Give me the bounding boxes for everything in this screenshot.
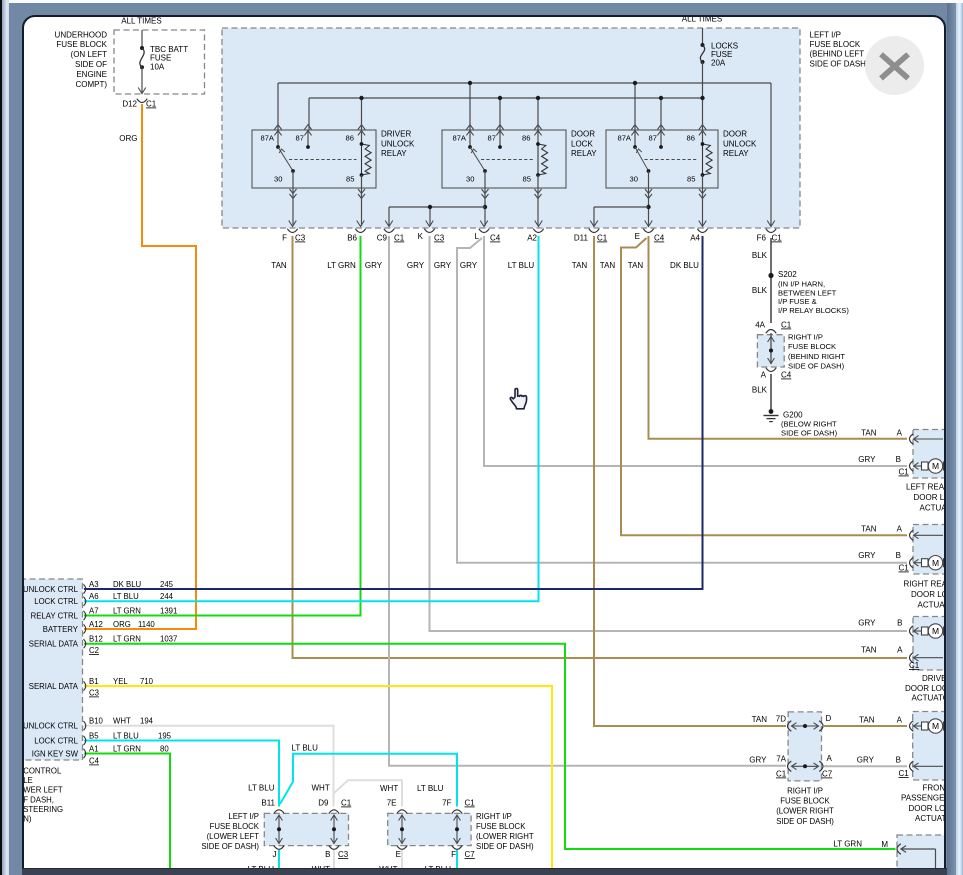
svg-text:85: 85 xyxy=(687,174,695,183)
svg-text:A: A xyxy=(896,715,902,724)
svg-text:F6: F6 xyxy=(756,233,766,242)
svg-text:GRY: GRY xyxy=(749,755,767,764)
svg-text:(IN I/P HARN,: (IN I/P HARN, xyxy=(778,279,825,288)
svg-text:GRY: GRY xyxy=(858,455,876,464)
svg-text:B1: B1 xyxy=(89,676,99,685)
svg-text:C1: C1 xyxy=(146,99,157,108)
svg-text:D12: D12 xyxy=(122,99,137,108)
svg-text:A: A xyxy=(897,645,903,654)
svg-text:RIGHT I/P: RIGHT I/P xyxy=(788,332,823,341)
svg-text:BLK: BLK xyxy=(751,286,767,295)
svg-text:30: 30 xyxy=(274,174,282,183)
svg-text:(LOWER RIGHT: (LOWER RIGHT xyxy=(776,806,834,815)
svg-text:TAN: TAN xyxy=(271,261,287,270)
svg-text:STEERING: STEERING xyxy=(24,804,63,813)
svg-text:GRY: GRY xyxy=(406,261,424,270)
svg-text:TAN: TAN xyxy=(861,428,877,437)
svg-text:M: M xyxy=(931,721,938,731)
svg-text:A4: A4 xyxy=(690,233,700,242)
svg-text:DOOR LOCK: DOOR LOCK xyxy=(908,804,944,813)
svg-text:A: A xyxy=(826,754,832,763)
svg-text:1140: 1140 xyxy=(138,619,155,628)
svg-text:RIGHT REAR: RIGHT REAR xyxy=(903,579,944,588)
svg-text:DRIVER: DRIVER xyxy=(922,674,944,683)
svg-text:30: 30 xyxy=(629,174,637,183)
svg-text:GRY: GRY xyxy=(433,261,451,270)
svg-text:LEFT REAR: LEFT REAR xyxy=(906,482,944,491)
svg-text:C9: C9 xyxy=(376,233,387,242)
svg-text:244: 244 xyxy=(160,592,174,601)
svg-text:7F: 7F xyxy=(442,798,451,807)
svg-text:D: D xyxy=(825,714,831,723)
svg-text:BLK: BLK xyxy=(751,251,767,260)
svg-text:LT BLU: LT BLU xyxy=(507,261,534,270)
svg-text:ORG: ORG xyxy=(113,619,131,628)
svg-text:SIDE OF DASH): SIDE OF DASH) xyxy=(788,361,845,370)
svg-text:(ON LEFT: (ON LEFT xyxy=(70,50,107,59)
svg-text:LT GRN: LT GRN xyxy=(113,744,141,753)
svg-text:SIDE OF DASH): SIDE OF DASH) xyxy=(776,816,834,825)
svg-text:86: 86 xyxy=(522,133,530,142)
svg-text:UNLOCK CTRL: UNLOCK CTRL xyxy=(24,721,79,730)
svg-text:C4: C4 xyxy=(490,233,501,242)
svg-text:1037: 1037 xyxy=(160,634,177,643)
svg-text:UNLOCK: UNLOCK xyxy=(723,139,757,148)
svg-text:DOOR LOCK: DOOR LOCK xyxy=(905,684,944,693)
svg-text:A: A xyxy=(760,370,766,379)
svg-text:C2: C2 xyxy=(89,646,99,655)
svg-text:ORG: ORG xyxy=(119,134,137,143)
svg-text:86: 86 xyxy=(686,133,694,142)
svg-text:FUSE BLOCK: FUSE BLOCK xyxy=(209,821,259,830)
svg-text:UNDERHOOD: UNDERHOOD xyxy=(54,30,107,39)
svg-text:ACTUATOR: ACTUATOR xyxy=(917,600,944,609)
svg-text:LT GRN: LT GRN xyxy=(833,839,862,848)
svg-text:C1: C1 xyxy=(781,320,792,329)
svg-text:S202: S202 xyxy=(778,270,797,279)
svg-text:B: B xyxy=(895,551,900,560)
svg-text:RELAY CTRL: RELAY CTRL xyxy=(30,611,78,620)
svg-text:C1: C1 xyxy=(898,563,909,572)
svg-text:87A: 87A xyxy=(617,133,631,142)
svg-text:(BEHIND RIGHT: (BEHIND RIGHT xyxy=(788,351,845,360)
svg-text:K: K xyxy=(417,232,423,241)
svg-text:LT BLU: LT BLU xyxy=(113,731,139,740)
svg-text:A1: A1 xyxy=(89,744,99,753)
svg-text:F: F xyxy=(451,850,456,859)
svg-text:DOOR: DOOR xyxy=(571,129,595,138)
svg-text:LEFT I/P: LEFT I/P xyxy=(228,811,259,820)
svg-text:710: 710 xyxy=(140,676,154,685)
svg-text:BETWEEN LEFT: BETWEEN LEFT xyxy=(778,288,837,297)
svg-text:DOOR LOCK: DOOR LOCK xyxy=(913,493,944,502)
svg-text:87A: 87A xyxy=(260,133,274,142)
svg-text:RELAY: RELAY xyxy=(381,149,407,158)
svg-text:ACTUATOR: ACTUATOR xyxy=(919,503,944,512)
svg-text:A: A xyxy=(896,428,902,437)
svg-text:RELAY: RELAY xyxy=(723,149,749,158)
svg-text:RIGHT I/P: RIGHT I/P xyxy=(787,786,823,795)
svg-text:DRIVER: DRIVER xyxy=(381,129,411,138)
svg-text:FUSE BLOCK: FUSE BLOCK xyxy=(788,342,836,351)
svg-text:GRY: GRY xyxy=(856,755,874,764)
svg-text:LT GRN: LT GRN xyxy=(327,261,356,270)
svg-text:PASSENGER: PASSENGER xyxy=(901,793,944,802)
svg-text:87: 87 xyxy=(648,133,656,142)
svg-text:B: B xyxy=(895,455,900,464)
svg-text:ACTUATOR: ACTUATOR xyxy=(915,814,944,823)
svg-text:DK BLU: DK BLU xyxy=(113,579,142,588)
svg-text:30: 30 xyxy=(466,174,474,183)
svg-text:E: E xyxy=(634,232,639,241)
svg-text:LT BLU: LT BLU xyxy=(248,783,275,792)
svg-text:194: 194 xyxy=(140,716,154,725)
svg-text:TAN: TAN xyxy=(861,524,877,533)
svg-text:TAN: TAN xyxy=(599,261,615,270)
svg-text:ALL TIMES: ALL TIMES xyxy=(681,17,721,23)
svg-text:(BEHIND LEFT: (BEHIND LEFT xyxy=(809,49,864,58)
svg-text:UNLOCK: UNLOCK xyxy=(381,139,415,148)
svg-text:LT GRN: LT GRN xyxy=(113,634,141,643)
svg-text:10A: 10A xyxy=(150,62,165,71)
svg-text:LEFT I/P: LEFT I/P xyxy=(809,30,840,39)
svg-text:M: M xyxy=(931,626,938,636)
svg-text:C3: C3 xyxy=(295,233,306,242)
svg-text:4A: 4A xyxy=(755,320,765,329)
svg-text:SIDE OF: SIDE OF xyxy=(74,60,106,69)
svg-text:A12: A12 xyxy=(89,619,103,628)
svg-text:86: 86 xyxy=(345,133,353,142)
svg-text:C1: C1 xyxy=(341,798,352,807)
svg-text:TAN: TAN xyxy=(861,645,877,654)
svg-text:1391: 1391 xyxy=(160,606,177,615)
svg-text:LT GRN: LT GRN xyxy=(113,606,141,615)
svg-text:DOOR LOCK: DOOR LOCK xyxy=(911,590,944,599)
svg-text:LT BLU: LT BLU xyxy=(291,743,318,752)
svg-text:C1: C1 xyxy=(776,769,787,778)
svg-text:F: F xyxy=(282,233,287,242)
svg-text:WHT: WHT xyxy=(311,783,329,792)
svg-text:C3: C3 xyxy=(338,850,349,859)
svg-text:A6: A6 xyxy=(89,592,99,601)
svg-text:GRY: GRY xyxy=(459,261,477,270)
svg-text:87A: 87A xyxy=(452,133,466,142)
svg-text:C3: C3 xyxy=(434,233,445,242)
svg-text:I/P FUSE &: I/P FUSE & xyxy=(778,297,817,306)
svg-text:LE: LE xyxy=(24,776,33,785)
svg-text:D11: D11 xyxy=(573,233,588,242)
svg-text:FUSE BLOCK: FUSE BLOCK xyxy=(809,40,860,49)
svg-text:FUSE BLOCK: FUSE BLOCK xyxy=(780,796,830,805)
svg-text:SIDE OF DASH): SIDE OF DASH) xyxy=(781,428,838,437)
svg-text:ACTUATOR: ACTUATOR xyxy=(911,693,944,702)
svg-text:YEL: YEL xyxy=(113,676,128,685)
svg-text:C1: C1 xyxy=(771,233,782,242)
svg-text:TAN: TAN xyxy=(627,261,643,270)
svg-text:C4: C4 xyxy=(89,756,100,765)
svg-text:RELAY: RELAY xyxy=(571,149,597,158)
svg-text:RIGHT I/P: RIGHT I/P xyxy=(476,811,512,820)
svg-text:D9: D9 xyxy=(318,798,329,807)
svg-text:GRY: GRY xyxy=(858,618,876,627)
svg-text:TAN: TAN xyxy=(571,261,587,270)
svg-text:DOOR: DOOR xyxy=(723,129,747,138)
svg-text:F DASH,: F DASH, xyxy=(24,795,54,804)
svg-text:SIDE OF DASH): SIDE OF DASH) xyxy=(476,841,534,850)
svg-text:M: M xyxy=(931,557,938,567)
svg-text:7E: 7E xyxy=(386,798,396,807)
svg-text:FUSE BLOCK: FUSE BLOCK xyxy=(56,40,107,49)
svg-text:A: A xyxy=(896,524,902,533)
svg-text:CONTROL: CONTROL xyxy=(24,766,62,775)
svg-text:LOCK CTRL: LOCK CTRL xyxy=(34,597,78,606)
svg-text:E: E xyxy=(395,850,400,859)
svg-text:SIDE OF DASH): SIDE OF DASH) xyxy=(809,59,868,68)
svg-text:ALL TIMES: ALL TIMES xyxy=(121,17,161,26)
svg-text:(LOWER LEFT: (LOWER LEFT xyxy=(206,831,259,840)
svg-text:SIDE OF DASH): SIDE OF DASH) xyxy=(201,841,259,850)
svg-text:85: 85 xyxy=(522,174,530,183)
svg-text:TAN: TAN xyxy=(859,715,875,724)
svg-text:C1: C1 xyxy=(898,467,909,476)
svg-text:LOCK: LOCK xyxy=(571,139,593,148)
svg-text:(BELOW RIGHT: (BELOW RIGHT xyxy=(781,419,837,428)
svg-text:C1: C1 xyxy=(909,661,920,670)
svg-text:A3: A3 xyxy=(89,579,99,588)
svg-text:WER LEFT: WER LEFT xyxy=(24,785,63,794)
svg-text:C1: C1 xyxy=(898,769,909,778)
svg-text:B: B xyxy=(897,618,902,627)
svg-text:LT BLU: LT BLU xyxy=(417,783,444,792)
svg-text:C1: C1 xyxy=(464,798,475,807)
svg-text:B: B xyxy=(325,850,330,859)
svg-text:C4: C4 xyxy=(654,233,665,242)
svg-text:7D: 7D xyxy=(775,714,785,723)
svg-text:85: 85 xyxy=(346,174,354,183)
svg-text:J: J xyxy=(272,850,276,859)
svg-text:FUSE BLOCK: FUSE BLOCK xyxy=(476,821,526,830)
svg-text:B5: B5 xyxy=(89,731,99,740)
svg-text:(LOWER RIGHT: (LOWER RIGHT xyxy=(476,831,534,840)
svg-text:IGN KEY SW: IGN KEY SW xyxy=(31,749,78,758)
svg-text:C7: C7 xyxy=(822,769,833,778)
svg-text:BATTERY: BATTERY xyxy=(42,624,78,633)
svg-text:C1: C1 xyxy=(394,233,405,242)
svg-text:245: 245 xyxy=(160,579,174,588)
svg-text:ENGINE: ENGINE xyxy=(76,69,107,78)
svg-text:M: M xyxy=(881,840,888,849)
svg-text:B12: B12 xyxy=(89,634,103,643)
svg-text:N): N) xyxy=(24,814,32,823)
svg-text:C7: C7 xyxy=(464,850,475,859)
svg-text:TBC BATT: TBC BATT xyxy=(150,45,188,54)
svg-text:80: 80 xyxy=(160,744,169,753)
svg-text:M: M xyxy=(931,461,938,471)
svg-text:SERIAL DATA: SERIAL DATA xyxy=(28,681,78,690)
svg-text:DK BLU: DK BLU xyxy=(670,261,699,270)
svg-text:C1: C1 xyxy=(597,233,608,242)
svg-text:195: 195 xyxy=(158,731,172,740)
svg-text:B10: B10 xyxy=(89,716,104,725)
svg-text:COMPT): COMPT) xyxy=(75,79,107,88)
svg-text:TAN: TAN xyxy=(751,715,767,724)
svg-text:I/P RELAY BLOCKS): I/P RELAY BLOCKS) xyxy=(778,305,849,314)
svg-text:7A: 7A xyxy=(776,754,786,763)
svg-text:B: B xyxy=(895,755,900,764)
svg-text:FRONT: FRONT xyxy=(922,783,944,792)
svg-text:20A: 20A xyxy=(711,58,726,67)
svg-text:WHT: WHT xyxy=(380,783,398,792)
svg-text:UNLOCK CTRL: UNLOCK CTRL xyxy=(24,584,79,593)
svg-text:G200: G200 xyxy=(783,410,803,419)
svg-text:A2: A2 xyxy=(527,233,537,242)
svg-text:LT BLU: LT BLU xyxy=(113,592,139,601)
svg-text:A7: A7 xyxy=(89,606,99,615)
svg-text:C3: C3 xyxy=(89,688,99,697)
svg-text:C4: C4 xyxy=(781,370,792,379)
svg-text:87: 87 xyxy=(487,133,495,142)
svg-text:87: 87 xyxy=(295,133,303,142)
svg-text:SERIAL DATA: SERIAL DATA xyxy=(28,639,78,648)
svg-text:B11: B11 xyxy=(261,798,275,807)
svg-text:BLK: BLK xyxy=(751,385,767,394)
svg-text:WHT: WHT xyxy=(113,716,131,725)
svg-text:LOCK CTRL: LOCK CTRL xyxy=(34,736,78,745)
svg-text:GRY: GRY xyxy=(364,261,382,270)
svg-text:GRY: GRY xyxy=(858,551,876,560)
svg-text:B6: B6 xyxy=(347,233,357,242)
